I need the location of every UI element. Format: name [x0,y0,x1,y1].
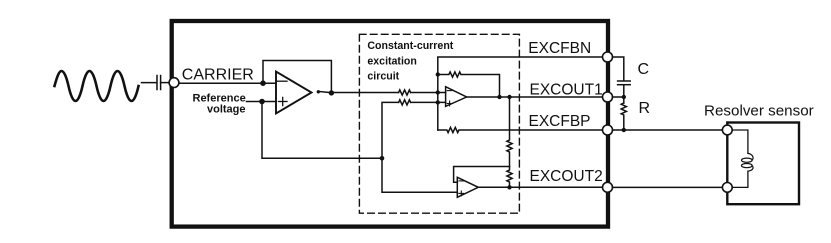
wire EXCFBP to resolver [613,129,723,131]
wire resistor to U2 inverting input [411,92,446,94]
resolver terminal lower [722,183,732,193]
svg-text:EXCOUT2: EXCOUT2 [530,168,603,185]
svg-text:circuit: circuit [367,71,399,83]
node: U2 output feedback junction [497,95,501,99]
wire CARRIER to op-amp U1 inverting input [179,82,276,84]
U3 minus sign [459,180,464,182]
node: U2 non-inverting input [436,100,440,104]
svg-text:EXCOUT1: EXCOUT1 [530,81,603,98]
U2 minus sign [447,90,452,92]
wire U1 output to resistor [331,92,398,94]
svg-text:voltage: voltage [207,103,246,115]
resolver winding branch wires [732,130,748,153]
node: reference rail junction [380,156,385,161]
EXCFBN rail into box [438,57,603,130]
node: divider top junction [507,95,511,99]
svg-text:excitation: excitation [367,55,416,67]
node: C-R junction [622,95,626,99]
svg-text:EXCFBP: EXCFBP [529,113,591,130]
svg-text:EXCFBN: EXCFBN [528,40,591,57]
node: U2 feedback tap [436,72,440,76]
outer box (IC boundary) [172,21,608,227]
U2 plus sign [447,103,452,105]
EXCFBP rail into box with series resistor [438,127,603,132]
dashed box constant-current excitation circuit [359,34,519,213]
U1 feedback wire [263,61,331,93]
wire capacitor to CARRIER terminal [161,82,169,84]
switch contact [317,90,320,93]
node: reference voltage junction [259,99,265,105]
U3 plus sign [459,192,464,194]
node: U1 feedback junction [260,80,266,86]
node: U2 inverting input [436,90,440,94]
wire resistor to U2 non-inverting input [411,101,446,103]
capacitor (coupling) [156,76,158,90]
resolver sensor box [727,123,799,205]
wire rail down to U3 non-inverting input [382,158,457,192]
op-amp U1 [276,72,312,114]
divider resistor upper [507,97,512,167]
svg-text:C: C [638,61,650,78]
resolver terminal upper [722,125,732,135]
U1 minus sign [277,80,287,82]
reference rail: U1 + input down and right [262,102,382,159]
op-amp U2 [446,87,467,107]
node: switch output junction [329,90,334,95]
node: U3 output junction [507,185,511,189]
CARRIER terminal [169,78,179,88]
terminal EXCOUT2 [603,182,613,192]
terminal EXCFBP [603,125,613,135]
svg-text:R: R [639,100,651,117]
svg-text:CARRIER: CARRIER [182,67,254,84]
node line to U3 inverting input [454,167,510,183]
wire capacitor to EXCOUT1 node [623,85,625,103]
divider resistor lower [507,167,512,188]
wire sine to capacitor [142,82,157,84]
wire EXCOUT1 terminal to node [613,96,624,98]
svg-text:Resolver sensor: Resolver sensor [704,103,814,120]
resistor (U2 non-inverting input series) [399,100,411,105]
U1 plus sign [279,101,288,103]
wire rail up to U2 + series resistor [382,102,399,158]
wire EXCFBN to capacitor C [613,57,624,81]
resistor R [621,103,626,130]
wire EXCOUT2 to resolver [613,186,723,188]
op-amp U3 [457,177,478,197]
resistor (U2 inverting input series) [399,90,411,95]
sine wave source [55,71,139,101]
terminal EXCFBN [603,52,613,62]
capacitor C [618,80,631,82]
node: R to EXCFBP junction [622,128,626,132]
terminal EXCOUT1 [603,92,613,102]
wire U3 output to EXCOUT2 terminal [478,186,602,188]
wire U2 output to EXCOUT1 terminal [467,96,603,98]
svg-text:Constant-current: Constant-current [367,40,453,52]
wire reference voltage to U1 non-inverting input [247,101,277,103]
U2 feedback resistor branch [438,72,500,97]
resolver winding coil [748,153,753,160]
